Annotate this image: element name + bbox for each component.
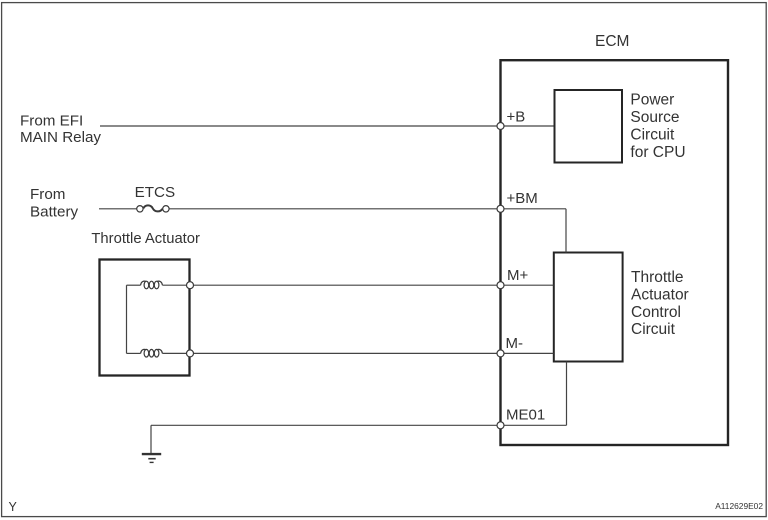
wire actuator inner left vertical: [126, 285, 128, 353]
svg-text:+B: +B: [507, 109, 526, 126]
svg-text:Power: Power: [630, 91, 674, 108]
svg-text:From EFI: From EFI: [20, 112, 83, 129]
throttle actuator control circuit block: [554, 253, 623, 362]
svg-text:ME01: ME01: [506, 407, 545, 424]
wire actuator top inner lead: [127, 284, 141, 286]
node actuator terminal M-: [187, 350, 194, 357]
node fuse left terminal: [137, 206, 143, 212]
wire coil L2 to M- terminal: [162, 352, 190, 354]
throttle actuator box: [100, 260, 190, 376]
coil L1: [141, 281, 163, 289]
wire ME01 vertical to control block: [566, 362, 568, 426]
svg-text:ECM: ECM: [595, 33, 629, 50]
wire fuse to +BM: [169, 208, 566, 210]
svg-text:Control: Control: [631, 304, 681, 321]
ground: [142, 454, 161, 462]
wire coil L1 to M+ terminal: [162, 284, 190, 286]
wire +B from EFI main relay: [100, 125, 554, 127]
node terminal +BM: [497, 205, 504, 212]
wire battery to fuse: [99, 208, 137, 210]
wire +BM vertical into control block: [565, 209, 567, 253]
wire actuator bottom inner lead: [127, 352, 141, 354]
svg-text:M+: M+: [507, 267, 528, 284]
node terminal M-: [497, 350, 504, 357]
svg-text:Actuator: Actuator: [631, 287, 689, 304]
ECM block U1: [501, 60, 729, 445]
svg-text:A112629E02: A112629E02: [715, 501, 763, 511]
node terminal +B: [497, 123, 504, 130]
svg-text:ETCS: ETCS: [135, 184, 176, 201]
power source circuit block: [555, 90, 623, 163]
node terminal ME01: [497, 422, 504, 429]
wire M- to ECM: [190, 352, 554, 354]
svg-text:Throttle Actuator: Throttle Actuator: [91, 231, 200, 247]
node actuator terminal M+: [187, 282, 194, 289]
svg-text:M-: M-: [506, 335, 524, 352]
svg-text:Circuit: Circuit: [631, 321, 676, 338]
svg-text:for CPU: for CPU: [630, 144, 685, 161]
svg-text:+BM: +BM: [507, 190, 538, 207]
svg-text:Source: Source: [630, 109, 679, 126]
wire ground drop: [150, 425, 152, 453]
wire ME01 horizontal: [151, 424, 567, 426]
svg-text:Throttle: Throttle: [631, 269, 684, 286]
svg-text:MAIN Relay: MAIN Relay: [20, 129, 101, 146]
fuse ETCS element: [143, 205, 162, 211]
coil L2: [141, 349, 163, 357]
node fuse right terminal: [163, 206, 169, 212]
svg-text:Battery: Battery: [30, 203, 79, 220]
svg-text:From: From: [30, 186, 65, 203]
node terminal M+: [497, 282, 504, 289]
svg-text:Circuit: Circuit: [630, 126, 675, 143]
wire M+ to ECM: [190, 284, 554, 286]
svg-text:Y: Y: [9, 500, 18, 514]
